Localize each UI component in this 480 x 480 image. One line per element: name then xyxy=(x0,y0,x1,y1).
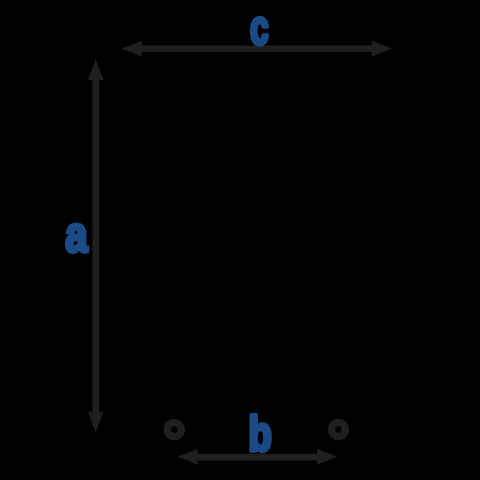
svg-text:c: c xyxy=(250,0,269,54)
wire: top arrow shaft xyxy=(138,45,376,52)
svg-text:a: a xyxy=(65,206,88,262)
dimension arrow b (bottom horizontal) xyxy=(177,449,337,465)
dimension arrow a (left vertical) xyxy=(88,60,104,433)
wire: bottom arrow shaft xyxy=(194,454,321,461)
arrowhead left of c xyxy=(121,41,141,57)
arrowhead right of c xyxy=(372,41,392,57)
label b xyxy=(248,407,271,462)
arrowhead left of b xyxy=(177,449,197,465)
arrowhead right of b xyxy=(317,449,337,465)
hole left (donut) xyxy=(167,423,181,437)
svg-text:b: b xyxy=(248,407,271,462)
wire: vertical arrow shaft xyxy=(92,76,99,415)
hole right (donut) xyxy=(332,423,346,437)
dimension arrow c (top horizontal) xyxy=(121,41,392,57)
label c xyxy=(250,0,269,54)
label a xyxy=(65,206,88,262)
arrowhead top of a xyxy=(88,60,104,80)
arrowhead bottom of a xyxy=(88,412,104,432)
